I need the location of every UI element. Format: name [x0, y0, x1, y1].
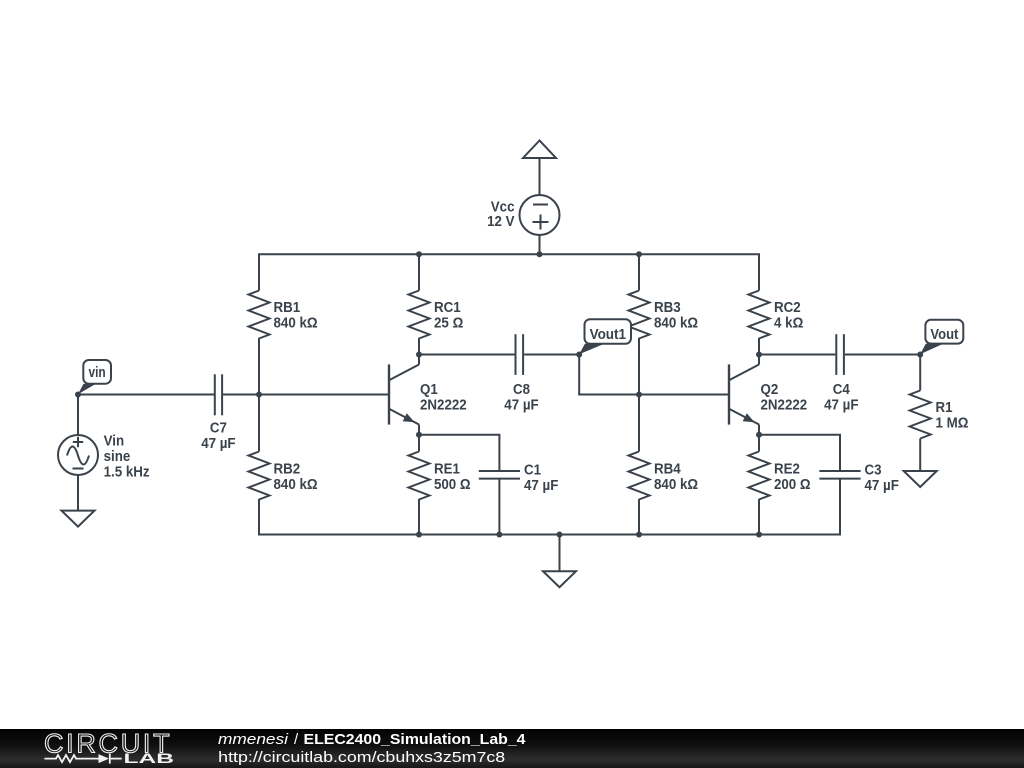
- wire emitter1 to C1: [419, 435, 500, 471]
- capacitor C8: [516, 334, 524, 375]
- transistor Q1: [389, 364, 419, 451]
- junction RB3 RB4 input: [636, 392, 642, 398]
- wire collector2 to C4: [759, 354, 920, 356]
- junction bottom RB4: [636, 532, 642, 538]
- capacitor C3: [819, 471, 860, 535]
- junction top rail Vcc: [537, 251, 543, 257]
- wire Vout to R1: [919, 355, 921, 391]
- label RE1 500: [434, 462, 471, 494]
- label R1 1 M: [936, 400, 969, 432]
- ground under Vin: [62, 511, 95, 527]
- svg-text:Vout1: Vout1: [590, 327, 626, 343]
- label RB4 840 k: [654, 462, 698, 494]
- wire Vout1 down and right to Q2 base: [578, 355, 729, 395]
- wire emitter2 to C3: [759, 435, 841, 471]
- junction top rail RC1: [416, 251, 422, 257]
- voltage source Vin sine: [58, 435, 98, 511]
- svg-text:500 Ω: 500 Ω: [434, 477, 471, 493]
- svg-text:mmenesi: mmenesi: [218, 731, 289, 748]
- svg-text:C4: C4: [833, 382, 850, 398]
- label RE2 200: [774, 462, 811, 494]
- label C8 47 uF: [504, 382, 539, 414]
- junction bottom RE1: [416, 532, 422, 538]
- label C1 47 uF: [524, 463, 559, 495]
- capacitor C1: [479, 471, 520, 535]
- svg-text:LAB: LAB: [124, 751, 175, 766]
- label C7 47 uF: [201, 420, 236, 452]
- transistor Q2: [729, 364, 759, 451]
- node Vout1: [576, 352, 582, 358]
- svg-text:2N2222: 2N2222: [420, 397, 467, 413]
- svg-text:1.5 kHz: 1.5 kHz: [104, 464, 150, 480]
- svg-text:http://circuitlab.com/cbuhxs3z: http://circuitlab.com/cbuhxs3z5m7c8: [218, 749, 505, 766]
- label C3 47 uF: [865, 463, 900, 495]
- node Vout: [917, 352, 923, 358]
- svg-text:vin: vin: [89, 365, 106, 381]
- svg-text:RB1: RB1: [274, 300, 301, 316]
- logo resistor-diode glyph: [44, 754, 121, 764]
- wire top rail: [258, 253, 760, 255]
- junction RB1 input: [256, 392, 262, 398]
- resistor RE1: [409, 452, 430, 535]
- svg-text:840 kΩ: 840 kΩ: [274, 477, 318, 493]
- resistor RC2: [749, 291, 770, 339]
- junction bottom C1: [496, 532, 502, 538]
- junction Q1 emitter: [416, 432, 422, 438]
- resistor RB1: [249, 291, 270, 339]
- svg-text:sine: sine: [104, 449, 131, 465]
- svg-text:RC2: RC2: [774, 300, 801, 316]
- label Q1 2N2222: [420, 382, 467, 414]
- label RB3 840 k: [654, 300, 698, 332]
- label Vin sine 1.5 kHz: [104, 433, 150, 480]
- svg-text:1 MΩ: 1 MΩ: [936, 416, 969, 432]
- label RB1 840 k: [274, 300, 318, 332]
- junction Q1 collector: [416, 352, 422, 358]
- svg-text:R1: R1: [936, 400, 953, 416]
- capacitor C4: [836, 334, 844, 375]
- svg-text:ELEC2400_Simulation_Lab_4: ELEC2400_Simulation_Lab_4: [304, 731, 527, 748]
- resistor R1: [910, 391, 931, 472]
- junction Q2 collector: [756, 352, 762, 358]
- wire collector1 to C8: [419, 354, 579, 356]
- label Q2 2N2222: [761, 382, 808, 414]
- wire ground stub: [559, 535, 561, 572]
- voltage source Vcc 12 V: [520, 195, 560, 254]
- wire vin to source: [77, 395, 79, 436]
- power flag VCC arrow: [523, 141, 556, 196]
- svg-text:/: /: [294, 731, 299, 748]
- label RC2 4 k: [774, 300, 804, 332]
- wire RB1 branch vertical: [258, 254, 260, 534]
- svg-text:RE1: RE1: [434, 462, 460, 478]
- svg-text:840 kΩ: 840 kΩ: [654, 316, 698, 332]
- flag vin: [78, 360, 111, 394]
- svg-text:C7: C7: [210, 420, 227, 436]
- junction Q2 emitter: [756, 432, 762, 438]
- svg-text:C1: C1: [524, 463, 541, 479]
- svg-text:Vout: Vout: [930, 327, 958, 343]
- wire RC2 branch: [758, 254, 760, 364]
- resistor RE2: [749, 452, 770, 535]
- svg-text:RE2: RE2: [774, 462, 800, 478]
- wire bottom rail: [258, 534, 841, 536]
- ground bottom center: [543, 571, 576, 587]
- svg-text:47 µF: 47 µF: [504, 397, 539, 413]
- wire input horizontal: [78, 394, 389, 396]
- node vin: [75, 392, 81, 398]
- svg-text:C8: C8: [513, 382, 530, 398]
- svg-text:2N2222: 2N2222: [761, 397, 808, 413]
- svg-text:25 Ω: 25 Ω: [434, 316, 464, 332]
- junction bottom RE2: [756, 532, 762, 538]
- svg-text:Q2: Q2: [761, 382, 779, 398]
- svg-text:RB3: RB3: [654, 300, 681, 316]
- label RB2 840 k: [274, 462, 318, 494]
- ground under R1: [904, 471, 937, 487]
- svg-text:Q1: Q1: [420, 382, 438, 398]
- svg-text:47 µF: 47 µF: [201, 436, 236, 452]
- svg-text:840 kΩ: 840 kΩ: [274, 316, 318, 332]
- junction bottom ground: [557, 532, 563, 538]
- wire RC1 branch: [418, 254, 420, 364]
- label Vcc 12 V: [487, 200, 515, 230]
- svg-text:12 V: 12 V: [487, 214, 515, 230]
- label RC1 25: [434, 300, 464, 332]
- junction top rail RB3: [636, 251, 642, 257]
- svg-text:RC1: RC1: [434, 300, 461, 316]
- flag Vout1: [579, 319, 631, 354]
- svg-text:4 kΩ: 4 kΩ: [774, 316, 804, 332]
- resistor RB3: [629, 291, 650, 339]
- svg-text:RB4: RB4: [654, 462, 681, 478]
- flag Vout: [920, 320, 963, 354]
- svg-text:C3: C3: [865, 463, 882, 479]
- svg-text:RB2: RB2: [274, 462, 301, 478]
- wire RB3 branch vertical: [638, 254, 640, 534]
- resistor RB2: [249, 452, 270, 500]
- resistor RC1: [409, 291, 430, 339]
- resistor RB4: [629, 452, 650, 500]
- capacitor C7: [215, 374, 222, 415]
- svg-text:Vin: Vin: [104, 433, 125, 449]
- label C4 47 uF: [824, 382, 859, 414]
- svg-text:840 kΩ: 840 kΩ: [654, 477, 698, 493]
- svg-text:200 Ω: 200 Ω: [774, 477, 811, 493]
- svg-text:47 µF: 47 µF: [524, 478, 559, 494]
- svg-text:47 µF: 47 µF: [824, 397, 859, 413]
- svg-text:47 µF: 47 µF: [865, 478, 900, 494]
